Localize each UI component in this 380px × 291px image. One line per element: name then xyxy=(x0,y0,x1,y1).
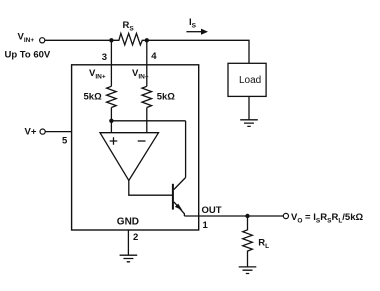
op-amp minus sign xyxy=(138,140,146,142)
transistor Q1 base bar xyxy=(172,184,174,210)
wire feedback horizontal xyxy=(111,120,185,122)
svg-text:2: 2 xyxy=(133,232,138,243)
svg-text:Up To 60V: Up To 60V xyxy=(5,49,51,60)
node feedback junction dot xyxy=(109,119,113,123)
IC box U1 xyxy=(72,65,199,230)
node 3 junction dot xyxy=(109,38,113,42)
svg-text:OUT: OUT xyxy=(202,205,222,216)
ground (load) xyxy=(240,120,258,127)
svg-text:V+: V+ xyxy=(25,126,37,137)
arrow IS xyxy=(186,29,208,35)
ground (RL) xyxy=(239,267,257,274)
wire feedback vertical to collector xyxy=(185,121,187,178)
transistor Q1 emitter arrow xyxy=(175,204,183,211)
svg-text:Load: Load xyxy=(239,75,261,86)
svg-text:4: 4 xyxy=(151,51,157,62)
wire load to ground xyxy=(248,96,250,119)
pin 3 wire xyxy=(110,40,112,86)
svg-text:GND: GND xyxy=(117,217,139,228)
terminal V+ xyxy=(40,129,45,134)
svg-text:1: 1 xyxy=(203,220,209,231)
resistor RL xyxy=(243,216,253,267)
op-amp U1 xyxy=(100,133,159,181)
wire 5k right to op-amp minus input xyxy=(146,108,148,133)
load box xyxy=(228,63,266,96)
resistor 5k left xyxy=(107,86,117,107)
wire op-amp output to base xyxy=(129,181,173,196)
wire V+ to pin 5 xyxy=(45,131,71,133)
node OUT junction dot xyxy=(245,214,249,218)
svg-text:5: 5 xyxy=(62,136,68,147)
pin 2 wire xyxy=(127,230,129,255)
pin 4 wire xyxy=(146,40,148,86)
transistor Q1 emitter xyxy=(174,202,185,216)
wire top rail xyxy=(45,40,249,63)
op-amp plus sign xyxy=(110,137,118,145)
node 4 junction dot xyxy=(145,38,149,42)
svg-text:5kΩ: 5kΩ xyxy=(157,91,176,102)
resistor 5k right xyxy=(142,86,152,107)
resistor RS xyxy=(111,33,144,45)
wire OUT xyxy=(184,215,283,217)
transistor Q1 collector xyxy=(174,178,186,190)
ground (GND pin) xyxy=(120,255,138,262)
terminal VO xyxy=(283,213,288,218)
svg-text:5kΩ: 5kΩ xyxy=(84,91,103,102)
svg-text:3: 3 xyxy=(102,52,107,63)
wire 5k left to op-amp plus input xyxy=(110,108,112,133)
terminal VIN+ xyxy=(40,38,45,43)
